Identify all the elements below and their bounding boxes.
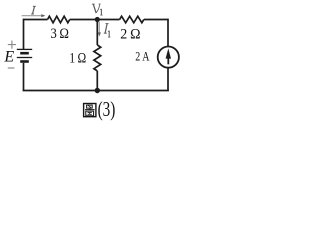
caption glyph tu inner top mouth — [87, 105, 93, 108]
caption glyph tu bottom box — [86, 111, 94, 116]
svg-text:1 Ω: 1 Ω — [69, 51, 86, 67]
junction dot bottom — [95, 88, 100, 93]
current arrow I — [22, 15, 42, 17]
caption glyph tu (figure) outer box — [84, 104, 96, 117]
label I1 — [104, 24, 109, 34]
battery E plate long 2 — [17, 57, 32, 59]
caption glyph tu bottom inner strokes — [88, 113, 92, 115]
wire right upper — [167, 19, 169, 47]
wire left lower — [23, 63, 25, 91]
battery E plate long top — [17, 48, 32, 50]
battery E plate short thick 1 — [20, 52, 29, 55]
current arrow I1 — [98, 22, 100, 33]
svg-text:(3): (3) — [98, 97, 116, 121]
resistor 3ohm zigzag — [48, 16, 70, 23]
svg-text:2 Ω: 2 Ω — [120, 26, 140, 42]
battery E plate short thick 2 — [20, 60, 29, 63]
current source arrow — [167, 58, 169, 64]
wire right lower — [167, 68, 169, 91]
label plus — [8, 41, 16, 49]
svg-text:3 Ω: 3 Ω — [50, 26, 69, 42]
caption glyph tu inner top tick — [88, 105, 91, 107]
wire middle upper — [96, 20, 98, 46]
svg-text:2 A: 2 A — [135, 50, 150, 64]
wire left upper — [23, 19, 25, 49]
wire top-left segment — [24, 19, 48, 21]
wire top-middle segment — [70, 19, 120, 21]
label minus — [8, 67, 15, 69]
node V1 junction dot top — [95, 17, 100, 22]
current source 2A circle — [158, 47, 179, 68]
svg-text:E: E — [3, 49, 14, 66]
wire bottom — [23, 90, 169, 92]
resistor 1ohm zigzag — [94, 45, 101, 71]
wire middle lower — [96, 71, 98, 91]
wire top-right segment — [144, 19, 168, 21]
label I — [31, 6, 36, 14]
caption glyph tu middle cross — [85, 108, 95, 110]
label V1 — [92, 4, 101, 13]
resistor 2ohm zigzag — [120, 16, 144, 23]
